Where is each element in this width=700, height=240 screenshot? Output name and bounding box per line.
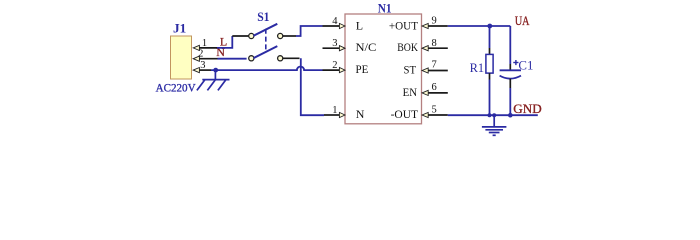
svg-text:2: 2 xyxy=(332,60,337,71)
N1 pin 8 xyxy=(422,46,448,51)
svg-text:6: 6 xyxy=(432,82,437,93)
wire -OUT rail (net GND) xyxy=(448,114,538,116)
junction dot R1 bottom xyxy=(488,113,492,117)
junction dot ground stem xyxy=(492,113,496,117)
svg-text:UA: UA xyxy=(515,14,530,28)
N1 pin 9 xyxy=(422,23,448,28)
J1 pin 2 xyxy=(193,56,217,61)
svg-text:EN: EN xyxy=(403,85,418,99)
wire S1 pole1 to N1 pin4 xyxy=(296,26,323,36)
junction dot R1 top xyxy=(487,24,492,29)
junction dot PE to chassis ground xyxy=(213,68,218,73)
svg-text:BOK: BOK xyxy=(397,40,418,54)
svg-text:9: 9 xyxy=(432,16,437,27)
svg-text:C1: C1 xyxy=(518,59,533,73)
wire net PE: J1 pin3 to N1 pin2 with hop xyxy=(211,66,323,70)
S1 pole2 right contact xyxy=(278,56,283,61)
svg-text:1: 1 xyxy=(332,105,337,116)
chassis ground xyxy=(197,70,230,90)
C1 plus sign xyxy=(513,62,518,64)
J1 pin 3 xyxy=(193,68,211,73)
capacitor C1 xyxy=(500,26,521,115)
svg-text:GND: GND xyxy=(513,102,541,116)
wire +OUT rail (net UA) xyxy=(448,25,511,27)
N1 pin 4 xyxy=(323,23,346,28)
svg-text:S1: S1 xyxy=(257,10,269,24)
svg-text:3: 3 xyxy=(332,38,337,49)
connector J1 body xyxy=(171,36,192,79)
resistor R1 xyxy=(486,26,493,115)
S1 pole2 left contact xyxy=(249,56,254,61)
N1 pin 6 xyxy=(422,90,448,95)
S1 pole2 right pin xyxy=(283,57,300,59)
svg-text:R1: R1 xyxy=(470,61,485,75)
svg-text:3: 3 xyxy=(200,60,205,71)
S1 pole1 left contact xyxy=(249,33,254,38)
svg-text:-OUT: -OUT xyxy=(391,107,419,121)
svg-text:7: 7 xyxy=(432,60,437,71)
switch S1 xyxy=(232,10,299,61)
svg-text:1: 1 xyxy=(202,38,207,49)
S1 pole1 right pin xyxy=(283,35,296,37)
svg-text:8: 8 xyxy=(432,38,437,49)
wire S1 pole2 down to N1 pin1 xyxy=(301,58,324,115)
earth ground xyxy=(482,115,507,135)
N1 pin 1 xyxy=(324,112,345,117)
S1 linkage dashed xyxy=(265,29,267,51)
J1 pin 1 xyxy=(193,45,217,50)
svg-text:N/C: N/C xyxy=(356,40,377,54)
S1 pole1 left pin xyxy=(232,35,249,37)
S1 pole1 right contact xyxy=(278,33,283,38)
S1 pole2 blade xyxy=(254,46,278,58)
svg-text:N: N xyxy=(356,107,365,121)
wire J1 pin2 to S1 pole2 xyxy=(218,58,247,60)
svg-text:J1: J1 xyxy=(173,22,186,36)
wire J1 pin1 to S1 pole1 xyxy=(217,36,232,48)
svg-text:N1: N1 xyxy=(378,1,392,15)
module N1 box xyxy=(345,14,422,124)
N1 pin 5 xyxy=(422,112,448,117)
svg-text:L: L xyxy=(356,18,363,32)
N1 pin 2 xyxy=(323,68,346,73)
svg-text:ST: ST xyxy=(404,62,417,76)
svg-text:AC220V: AC220V xyxy=(156,81,196,95)
svg-text:4: 4 xyxy=(332,16,338,27)
junction dot C1 bottom xyxy=(508,113,513,118)
N1 pin 7 xyxy=(422,68,448,73)
svg-text:PE: PE xyxy=(356,62,369,76)
N1 pin 3 xyxy=(323,46,346,51)
svg-text:+OUT: +OUT xyxy=(389,18,419,32)
svg-text:2: 2 xyxy=(198,49,203,60)
S1 pole1 blade xyxy=(254,24,278,36)
svg-text:5: 5 xyxy=(432,104,437,115)
